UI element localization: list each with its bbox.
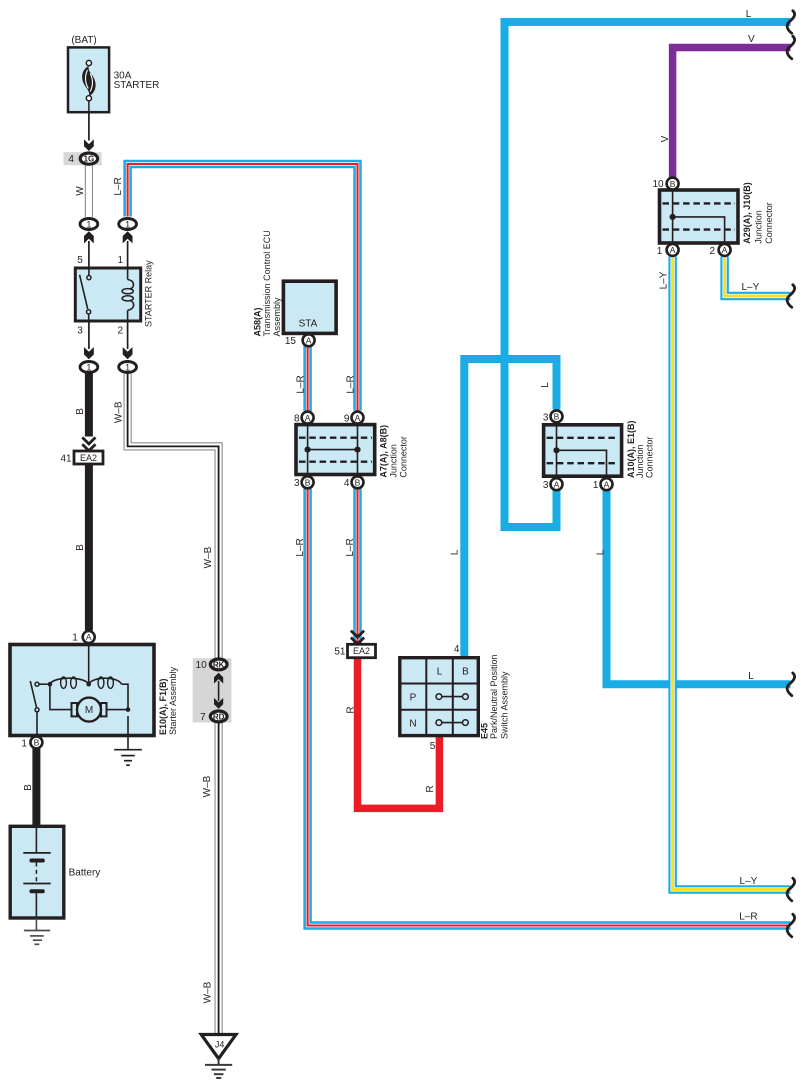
svg-text:L: L (450, 549, 461, 555)
svg-text:Connector: Connector (764, 202, 774, 244)
svg-text:L–R: L–R (295, 375, 306, 393)
break symbol L top (787, 11, 794, 34)
break symbol L lower (787, 673, 794, 696)
svg-text:1: 1 (21, 738, 27, 749)
break symbol L-R bottom (787, 914, 794, 937)
svg-text:Junction: Junction (635, 444, 645, 478)
svg-text:4: 4 (68, 154, 74, 165)
svg-text:W–B: W–B (203, 546, 214, 568)
svg-text:E45: E45 (480, 723, 490, 739)
wire stub relay pin 1 (127, 241, 129, 269)
wire L (blue) from junction A10 pin 1A to right edge (607, 489, 791, 684)
wire R (red) from EA2-51 to E45 pin 5 (358, 658, 440, 809)
svg-text:L: L (746, 9, 752, 20)
svg-text:51: 51 (334, 646, 346, 657)
arrow down into terminal (pin 3) (84, 347, 94, 359)
terminal 1 upper right (119, 219, 137, 230)
svg-text:L–Y: L–Y (659, 271, 670, 289)
svg-text:A: A (604, 479, 610, 489)
terminal 1 lower left (80, 362, 98, 373)
svg-text:R: R (425, 785, 436, 792)
svg-text:J4: J4 (215, 1040, 225, 1050)
svg-text:1G: 1G (84, 155, 95, 164)
arrow up into terminal (pin 5) (84, 231, 94, 243)
svg-text:L–Y: L–Y (742, 282, 760, 293)
svg-text:V: V (660, 135, 671, 142)
svg-text:RD: RD (213, 712, 225, 721)
svg-text:(BAT): (BAT) (71, 35, 96, 46)
svg-text:A58(A): A58(A) (252, 307, 262, 336)
svg-text:W–B: W–B (203, 981, 214, 1003)
svg-text:5: 5 (77, 255, 83, 266)
svg-text:STA: STA (299, 319, 318, 330)
terminal 1B of starter (30, 736, 42, 748)
svg-text:Connector: Connector (645, 436, 655, 478)
terminal 1 upper left (80, 219, 98, 230)
svg-text:A: A (86, 632, 92, 642)
junction connector A29(A) J10(B) (660, 190, 739, 243)
wire stub relay pin 5 (88, 241, 90, 269)
terminal 9A of A7 (352, 412, 364, 424)
terminal 1A of starter (83, 631, 95, 643)
svg-text:1: 1 (86, 219, 91, 229)
svg-text:41: 41 (60, 453, 72, 464)
starter relay box (75, 268, 140, 321)
wire B (black) from EA2-41 to starter pin 1A (85, 464, 93, 631)
connector A58 ECU box STA (283, 281, 336, 333)
svg-text:RK: RK (213, 660, 225, 669)
wire stub relay pin 2 (127, 321, 129, 350)
terminal 1A of A29 (667, 244, 679, 256)
wire L-R from ECU STA pin 15A to junction A7 pin 8A (307, 345, 309, 411)
svg-text:P: P (410, 692, 417, 703)
svg-text:L: L (595, 549, 606, 555)
terminal 3B of E1 (551, 410, 563, 422)
wire stub relay pin 3 (88, 321, 90, 350)
svg-text:4: 4 (454, 644, 460, 655)
svg-text:W–B: W–B (113, 401, 124, 423)
wire L-Y from junction A29 pin 1A to right edge bottom (673, 257, 791, 890)
svg-text:L–R: L–R (346, 375, 357, 393)
relay coil (122, 268, 134, 321)
connector RK/RD pair (193, 658, 232, 722)
wire L-R from junction A7 pin 4B to connector EA2-51 (357, 489, 359, 645)
svg-text:Assembly: Assembly (272, 297, 282, 337)
E45 park/neutral position switch assembly (400, 658, 479, 736)
terminal 1 lower right (119, 362, 137, 373)
wire L-R from junction A7 pin 3B to right edge bottom (308, 489, 791, 926)
terminal 4B of A8 (352, 476, 364, 488)
svg-text:Junction: Junction (754, 210, 764, 244)
starter assembly box (10, 645, 154, 738)
break symbol L-Y bottom (787, 878, 794, 901)
break symbol V (787, 36, 794, 59)
wire L (blue) top horizontal and down to junction A10 pin 3A (505, 22, 791, 527)
svg-text:L: L (540, 382, 551, 388)
svg-text:1: 1 (125, 219, 130, 229)
arrow down into terminal (pin 2) (123, 347, 133, 359)
svg-text:A: A (355, 413, 361, 423)
relay switch (80, 268, 91, 321)
wire W-B from starter relay pin 2 terminal to connector RK (128, 374, 219, 658)
svg-text:L–R: L–R (345, 538, 356, 556)
svg-text:A: A (670, 245, 676, 255)
terminal 3B of A8 (302, 476, 314, 488)
svg-text:3: 3 (543, 480, 549, 491)
wire V (violet) from right edge to junction A29 pin 10B (673, 48, 791, 178)
svg-text:10: 10 (652, 179, 664, 190)
terminal 2A of A29 (719, 244, 731, 256)
svg-text:W: W (75, 186, 86, 196)
svg-text:B: B (462, 667, 469, 678)
svg-text:Transmission Control ECU: Transmission Control ECU (262, 230, 272, 336)
wire L-Y from junction A29 pin 2A to right edge (725, 257, 791, 297)
svg-text:STARTER Relay: STARTER Relay (143, 260, 153, 327)
svg-text:4: 4 (344, 478, 350, 489)
wire L-R from starter relay pin 1 terminal to junction A7 pin 9A (128, 164, 358, 411)
svg-text:5: 5 (430, 741, 436, 752)
arrow into 1G (84, 139, 94, 151)
chevrons into EA2-41 (82, 437, 95, 450)
chevrons into EA2-51 (351, 631, 364, 644)
junction connector A10(A) E1(B) (544, 425, 622, 476)
ground J4 (201, 1035, 236, 1079)
fuse 30A STARTER (68, 47, 109, 112)
terminal 15 A of A58 (303, 334, 315, 346)
svg-text:M: M (85, 705, 93, 716)
svg-text:Starter Assembly: Starter Assembly (168, 666, 178, 735)
battery ground (24, 918, 50, 944)
svg-text:STARTER: STARTER (114, 80, 160, 91)
svg-text:3: 3 (77, 326, 83, 337)
svg-text:7: 7 (200, 712, 206, 723)
svg-text:A: A (722, 245, 728, 255)
svg-text:EA2: EA2 (353, 646, 370, 656)
svg-text:L–Y: L–Y (740, 876, 758, 887)
svg-text:Connector: Connector (399, 436, 409, 478)
wire W from connector 1G to terminal (88, 165, 90, 217)
wire L (blue) corner to junction A10 pin 3B and down to E45 pin 4 (464, 359, 556, 658)
terminal 3A of A10 (551, 478, 563, 490)
svg-text:10: 10 (196, 660, 208, 671)
svg-text:A7(A), A8(B): A7(A), A8(B) (379, 425, 389, 478)
junction connector A7(A) A8(B) (296, 425, 375, 475)
svg-text:Switch Assembly: Switch Assembly (500, 671, 510, 739)
svg-text:B: B (305, 478, 311, 488)
svg-text:A: A (305, 413, 311, 423)
terminal 1A of A10 (601, 478, 613, 490)
svg-text:1: 1 (118, 255, 124, 266)
terminal 8A of A7 (302, 412, 314, 424)
svg-text:1: 1 (593, 480, 599, 491)
wire W-B from connector RD to ground J4 (218, 722, 220, 1035)
arrow up into terminal (pin 1) (123, 231, 133, 243)
svg-text:Battery: Battery (69, 868, 101, 879)
svg-text:A29(A), J10(B): A29(A), J10(B) (742, 182, 752, 244)
svg-text:E10(A), F1(B): E10(A), F1(B) (158, 678, 168, 735)
svg-text:B: B (23, 784, 34, 791)
svg-text:N: N (409, 718, 416, 729)
svg-text:3: 3 (543, 412, 549, 423)
svg-text:B: B (554, 412, 560, 422)
svg-text:2: 2 (710, 246, 716, 257)
svg-text:1: 1 (86, 362, 91, 372)
connector 4 1G (64, 152, 102, 165)
svg-text:8: 8 (294, 414, 300, 425)
break symbol L-Y right (787, 285, 794, 308)
svg-text:EA2: EA2 (80, 453, 97, 463)
svg-text:9: 9 (344, 414, 350, 425)
svg-text:L–R: L–R (113, 177, 124, 195)
svg-text:L–R: L–R (739, 912, 757, 923)
wire B (black) from starter pin 1B to battery (32, 749, 40, 827)
svg-text:B: B (34, 738, 40, 748)
svg-text:Junction: Junction (388, 444, 398, 478)
connector EA2-51 (348, 644, 376, 657)
svg-text:A: A (306, 336, 312, 346)
starter internal ground (114, 716, 142, 765)
svg-text:15: 15 (285, 336, 297, 347)
svg-text:L: L (748, 671, 754, 682)
svg-text:B: B (670, 179, 676, 189)
connector EA2-41 (74, 451, 103, 464)
wire B (black) from terminal to connector EA2-41 (85, 374, 93, 437)
svg-text:1: 1 (72, 633, 78, 644)
svg-text:B: B (355, 478, 361, 488)
svg-text:3: 3 (294, 478, 300, 489)
svg-text:1: 1 (657, 246, 663, 257)
svg-text:A: A (554, 479, 560, 489)
svg-text:L: L (437, 667, 443, 678)
wire fuse to connector 1G (88, 101, 90, 141)
terminal 10B of J10 (667, 178, 679, 190)
svg-text:L–R: L–R (295, 538, 306, 556)
battery (10, 826, 64, 918)
svg-text:R: R (346, 706, 357, 713)
svg-text:V: V (748, 34, 755, 45)
svg-text:2: 2 (118, 326, 124, 337)
svg-text:W–B: W–B (202, 775, 213, 797)
svg-text:B: B (75, 408, 86, 415)
svg-text:1: 1 (125, 362, 130, 372)
svg-text:Park/Neutral Position: Park/Neutral Position (489, 654, 499, 739)
svg-text:B: B (75, 544, 86, 551)
